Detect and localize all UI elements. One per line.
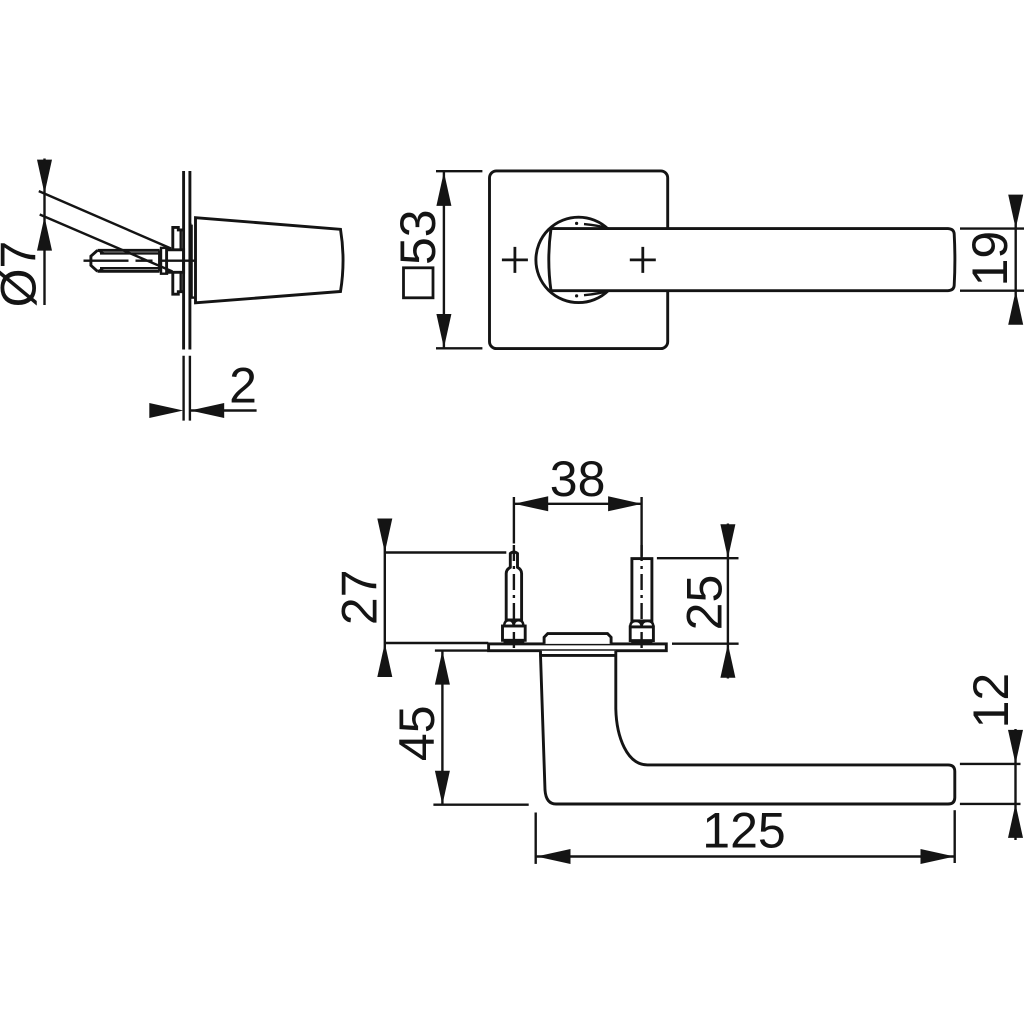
neck tangent curve top (584, 224, 609, 229)
right screw centre line (640, 497, 642, 557)
dimension 2: left arrow (149, 403, 183, 418)
dimension 25: upper arrow (720, 524, 735, 558)
svg-text:27: 27 (332, 569, 388, 625)
dimension 27: upper arrow (377, 519, 392, 553)
dimension 12: lower arrow (1008, 804, 1023, 838)
dimension 53: dimension line (443, 172, 445, 349)
dimension Ø7: oblique extension line 1 (39, 191, 171, 248)
door panel (vertical plate) (184, 171, 190, 350)
dimension 53: square symbol (404, 268, 434, 298)
dimension 38: dimension line (514, 503, 642, 505)
right screw body (630, 559, 653, 644)
left screw body (503, 552, 526, 644)
svg-text:25: 25 (677, 575, 733, 631)
dimension Ø7: dimension line (43, 159, 45, 306)
dimension Ø7: oblique extension line 2 (40, 215, 173, 272)
dimension 45: upper arrow (435, 651, 450, 685)
rosette sub-plate bracket (behind door panel) (173, 227, 184, 294)
handle neck cone (end-on view) (196, 218, 344, 303)
dimension 12: extension lines (960, 764, 1021, 804)
svg-text:38: 38 (550, 451, 606, 507)
dimension 19: upper arrow (1008, 195, 1023, 229)
screw position cross right (630, 247, 656, 273)
screw centerline (84, 260, 206, 262)
screw position cross left (502, 247, 528, 273)
dimension 2: right arrow (190, 403, 224, 418)
dimension 38: right arrow (608, 496, 642, 511)
dimension 19: dimension line (1015, 195, 1017, 324)
dimension 45: dimension line (441, 651, 443, 805)
dimension 12: upper arrow (1008, 730, 1023, 764)
dimension 2: leader line (190, 409, 256, 411)
handle boss circle (536, 217, 621, 302)
dimension 27: dimension line (384, 528, 386, 676)
dimension 53: extension lines (436, 171, 482, 348)
square rosette plate (490, 171, 668, 349)
neck tangent curve bottom (584, 291, 609, 296)
rosette cover flange (right of door) (190, 225, 196, 298)
svg-text:2: 2 (229, 358, 257, 414)
dimension 25: dimension line (727, 524, 729, 679)
svg-text:125: 125 (702, 802, 785, 858)
spindle nut block (167, 250, 184, 272)
handle lever grip (front view) (549, 229, 955, 291)
dimension 45: lower arrow (435, 771, 450, 805)
dimension 19: extension lines (960, 229, 1024, 291)
dimension 125: extension lines (536, 810, 955, 864)
dimension Ø7: upper arrow (37, 160, 52, 194)
dimension 25: lower arrow (720, 644, 735, 678)
dimension 38: left arrow (514, 496, 548, 511)
svg-text:12: 12 (963, 673, 1019, 729)
dimension 53: upper arrow (436, 172, 451, 206)
dimension 45: extension lines (433, 651, 528, 805)
dimension 125: dimension line (537, 855, 955, 857)
svg-text:19: 19 (962, 231, 1018, 287)
neck flange line (541, 654, 616, 657)
dimension 53: lower arrow (436, 314, 451, 348)
spindle hub boss on plate (544, 634, 611, 644)
rosette base plate (top view) (489, 644, 667, 651)
dimension 27: extension lines (385, 553, 507, 644)
left screw centre line (513, 497, 515, 544)
dimension 2: extension lines below door panel (184, 356, 190, 421)
handle neck and grip (top view outline) (541, 651, 955, 804)
dimension 12: dimension line (1014, 729, 1016, 840)
screw washer tab (161, 248, 167, 274)
svg-text:53: 53 (390, 209, 446, 265)
svg-text:Ø7: Ø7 (0, 241, 47, 308)
dimension 19: lower arrow (1008, 291, 1023, 325)
dimension 125: right arrow (921, 849, 955, 864)
dimension 27: lower arrow (377, 643, 392, 677)
dimension 25: extension lines (657, 558, 739, 644)
spindle screw (left of door) (91, 250, 160, 271)
svg-text:45: 45 (389, 705, 445, 761)
dimension 125: left arrow (537, 849, 571, 864)
dimension Ø7: lower arrow (37, 217, 52, 251)
